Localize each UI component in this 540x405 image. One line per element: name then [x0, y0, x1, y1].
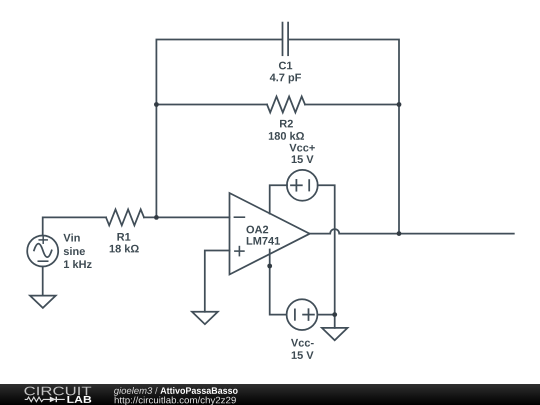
footer separator slash — [155, 387, 158, 394]
label R2 — [280, 120, 293, 128]
wire op-amp noninverting input to ground — [205, 251, 230, 312]
capacitor C1 — [283, 23, 289, 56]
wire Vcc+ right to vertical rail — [318, 185, 335, 314]
label R1 value — [110, 244, 139, 252]
voltage source Vcc+ — [287, 170, 318, 201]
ground for noninverting input — [192, 312, 218, 324]
label R1 — [117, 233, 130, 241]
wire Vin to ground — [42, 267, 44, 296]
wire op-amp output with hop over rail — [310, 229, 514, 234]
label Vin freq — [64, 260, 92, 268]
wire R2 right lead — [305, 104, 399, 106]
voltage source Vcc- — [287, 299, 318, 330]
wire left vertical feedback — [155, 105, 157, 218]
label Vcc+ value — [292, 155, 314, 163]
label LM741 — [247, 237, 280, 245]
node right feedback / R2 — [397, 102, 402, 107]
wire rail stub to ground — [334, 315, 336, 328]
resistor R1 — [106, 209, 144, 225]
voltage source V1 Vin — [27, 236, 58, 267]
label OA2 — [246, 226, 268, 234]
ground for supplies — [322, 328, 348, 340]
node R1 / inverting input — [154, 215, 159, 220]
label C1 value — [270, 74, 301, 84]
resistor R2 — [267, 97, 305, 113]
logo diode — [50, 397, 56, 403]
node output / feedback — [397, 231, 402, 236]
ground for Vin — [30, 296, 56, 308]
op-amp plus input marker — [235, 247, 244, 256]
label C1 — [279, 62, 292, 70]
wire Vin to R1 — [43, 217, 106, 235]
op-amp OA2 triangle — [230, 193, 310, 275]
footer bar — [0, 384, 540, 405]
logo resistor squiggle — [25, 397, 49, 402]
label Vcc- value — [292, 351, 314, 359]
footer author gioelem3 — [114, 387, 152, 396]
label Vin type — [64, 247, 85, 255]
wire op-amp V+ pin to Vcc+ — [270, 185, 287, 213]
node left feedback / R2 — [154, 102, 159, 107]
wire right vertical feedback — [398, 105, 400, 234]
label Vcc+ — [289, 144, 314, 152]
logo wordmark CIRCUIT — [24, 387, 91, 396]
CircuitLab logo wordmark — [25, 397, 65, 403]
label R2 value — [269, 132, 304, 140]
wire R1 to op-amp inverting input — [144, 216, 230, 218]
wire R2 left lead — [156, 104, 267, 106]
wire Vcc- right to ground rail — [317, 314, 334, 316]
label Vcc- — [291, 339, 314, 347]
label Vin — [63, 234, 79, 242]
op-amp minus input marker — [234, 216, 244, 218]
footer url — [115, 397, 236, 405]
wire C1 right plate to right vertical — [289, 40, 399, 105]
node junction dots — [154, 102, 401, 317]
wire top feedback from left vertical to C1 left plate — [156, 40, 281, 105]
node Vcc- / ground — [332, 312, 337, 317]
logo wordmark LAB — [67, 396, 91, 403]
wire op-amp V- pin down to Vcc- — [270, 250, 287, 315]
footer title AttivoPassaBasso — [160, 387, 237, 394]
node V- pin — [267, 264, 272, 269]
